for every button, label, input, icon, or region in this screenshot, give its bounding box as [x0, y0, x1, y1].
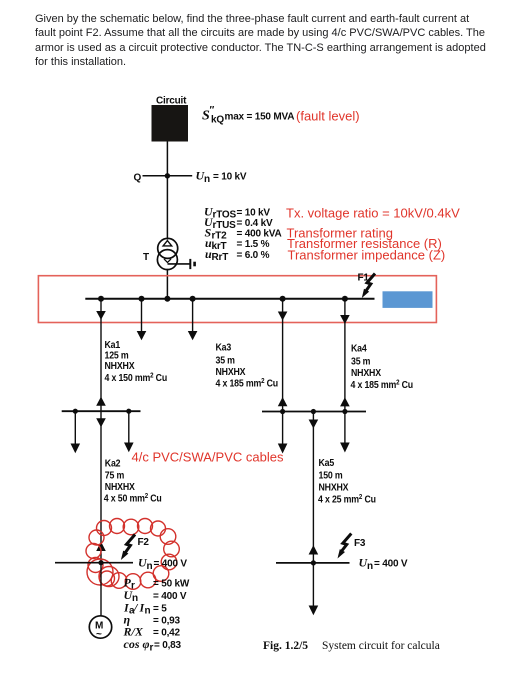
transformer neutral earthing wire: [168, 263, 191, 265]
svg-text:F2: F2: [138, 537, 150, 548]
F3 outgoing wire and arrow: [309, 563, 319, 615]
svg-text:= 0,83: = 0,83: [154, 640, 182, 651]
svg-text:~: ~: [96, 629, 102, 640]
svg-text:= 1.5 %: = 1.5 %: [237, 239, 270, 250]
svg-text:RrT: RrT: [212, 252, 229, 263]
earth symbol: [190, 259, 194, 269]
feeder Ka4 wire with direction arrow: [340, 299, 350, 412]
F3 junction dot: [311, 560, 316, 565]
svg-text:Ka5: Ka5: [319, 456, 335, 468]
spare way 2: wire and arrow: [188, 299, 198, 341]
svg-text:4 x 185 mm2 Cu: 4 x 185 mm2 Cu: [216, 377, 279, 389]
label Q: [134, 173, 142, 184]
svg-text:Q: Q: [134, 173, 142, 184]
svg-text:NHXHX: NHXHX: [351, 366, 382, 378]
feeder Ka5 wire with outgoing arrow: [309, 412, 319, 563]
svg-text:35 m: 35 m: [216, 354, 235, 366]
svg-text:NHXHX: NHXHX: [105, 480, 136, 492]
svg-text:= 0,42: = 0,42: [153, 628, 181, 639]
svg-text:n: n: [147, 561, 153, 572]
svg-text:Transformer impedance (Z): Transformer impedance (Z): [288, 248, 446, 263]
node Q junction dot: [165, 173, 170, 178]
node Q horizontal wire: [143, 175, 193, 177]
svg-text:= 400 kVA: = 400 kVA: [237, 229, 282, 240]
label F1: [358, 273, 370, 284]
problem statement paragraph: [35, 12, 487, 70]
feeder Ka2 arrow into F2 board: [96, 542, 106, 551]
svg-text:150 m: 150 m: [319, 469, 343, 481]
junction dot Ka4: [342, 296, 348, 302]
transformer value label UrTOS = 10 kV: [204, 205, 270, 221]
fault bolt F1: [362, 274, 375, 299]
DB1 outgoing way left: wire and arrow: [71, 411, 81, 453]
network feeder source box: [152, 105, 189, 142]
svg-text:F3: F3: [354, 538, 366, 549]
DB2 junction dot Ka5: [311, 409, 316, 414]
DB2 outgoing way right: wire and arrow: [340, 412, 350, 453]
label Circuit (supply network): [156, 96, 187, 107]
junction dot Ka3: [280, 296, 286, 302]
label block Ka1: [105, 338, 168, 383]
red annotation (fault level): [296, 109, 360, 124]
svg-text:= 400 V: = 400 V: [374, 559, 408, 570]
wire: transformer to main busbar: [166, 269, 168, 299]
label Un = 10 kV: [196, 169, 247, 186]
DB1 junction dot left: [73, 409, 78, 414]
svg-text:= 5: = 5: [153, 604, 167, 615]
DB1 outgoing way right: wire and arrow: [124, 411, 134, 452]
junction dot spare 2: [190, 296, 196, 302]
motor M: [89, 616, 111, 640]
blue highlight rectangle: [383, 291, 433, 308]
motor value label R/X = 0,42: [123, 625, 181, 639]
svg-text:4 x 25 mm2 Cu: 4 x 25 mm2 Cu: [318, 493, 376, 505]
label Un = 400 V at F3: [359, 556, 408, 573]
label T: [143, 252, 149, 263]
label F2: [138, 537, 150, 548]
label block Ka4: [351, 342, 414, 390]
svg-text:= 0,93: = 0,93: [153, 616, 181, 627]
motor value label Pr = 50 kW: [124, 576, 190, 592]
svg-text:rT2: rT2: [212, 231, 228, 242]
wire: F2 board to motor: [100, 563, 102, 616]
svg-text:4 x 50 mm2 Cu: 4 x 50 mm2 Cu: [104, 492, 162, 504]
svg-text:max = 150 MVA: max = 150 MVA: [225, 112, 295, 123]
svg-text:rTOS: rTOS: [213, 210, 237, 221]
main LV busbar: [85, 298, 374, 300]
svg-text:krT: krT: [212, 241, 227, 252]
svg-text:kQ: kQ: [211, 115, 224, 126]
DB1 junction dot right: [126, 409, 131, 414]
junction dot spare 1: [139, 296, 145, 302]
svg-text:cos φ: cos φ: [124, 637, 150, 651]
transformer T primary winding circle with delta symbol: [158, 238, 178, 258]
wire: source box to node Q: [166, 142, 168, 176]
svg-text:4 x 185 mm2 Cu: 4 x 185 mm2 Cu: [351, 378, 414, 390]
svg-text:= 400 V: = 400 V: [154, 559, 188, 570]
feeder Ka1 incoming arrow at DB1: [96, 397, 106, 406]
red highlight rectangle around busbar: [38, 276, 436, 323]
svg-text:n: n: [204, 174, 210, 185]
distribution board DB1 busbar: [62, 410, 141, 412]
svg-text:Ka2: Ka2: [105, 457, 121, 469]
svg-text:rTUS: rTUS: [213, 220, 237, 231]
feeder Ka2 wire with outgoing arrow: [96, 411, 106, 563]
transformer value label ukrT = 1.5 %: [205, 236, 270, 252]
transformer T secondary winding circle with wye symbol: [157, 250, 177, 270]
svg-text:35 m: 35 m: [351, 355, 370, 367]
motor value label cos phi = 0,83: [124, 637, 182, 654]
figure caption: [263, 640, 440, 652]
feeder Ka3 wire with direction arrow: [278, 299, 288, 412]
DB2 junction dot Ka4: [342, 409, 347, 414]
svg-text:75 m: 75 m: [105, 469, 124, 481]
junction dot Ka1: [98, 296, 104, 302]
F2 board busbar: [55, 562, 133, 564]
svg-text:4/c PVC/SWA/PVC cables: 4/c PVC/SWA/PVC cables: [132, 450, 284, 465]
red annotation Transformer resistance: [287, 236, 442, 251]
svg-text:= 6.0 %: = 6.0 %: [237, 250, 270, 261]
label Un = 400 V at F2: [138, 556, 187, 573]
junction dot incomer: [164, 296, 170, 302]
svg-text:(fault level): (fault level): [296, 109, 360, 124]
svg-text:= 0.4 kV: = 0.4 kV: [237, 218, 273, 229]
svg-text:n: n: [367, 561, 373, 572]
F2 junction dot: [98, 560, 103, 565]
feeder Ka4 incoming arrow at DB2: [340, 397, 350, 406]
F3 board busbar: [276, 562, 350, 564]
svg-text:Fig. 1.2/5: Fig. 1.2/5: [263, 640, 308, 652]
feeder Ka3 incoming arrow at DB2: [278, 397, 288, 406]
svg-text:F1: F1: [358, 273, 370, 284]
motor value label Ia / In = 5: [123, 601, 167, 617]
DB2 outgoing way left: wire and arrow: [278, 412, 288, 454]
svg-text:Ka4: Ka4: [351, 342, 367, 354]
red annotation 4/c PVC/SWA/PVC cables: [132, 450, 284, 465]
spare way 1: wire and arrow: [137, 299, 147, 341]
svg-text:Circuit: Circuit: [156, 96, 187, 107]
feeder Ka1 wire with direction arrow: [96, 299, 106, 411]
red hand-drawn loop cloud around fault point F2: [86, 519, 179, 590]
label block Ka3: [216, 341, 279, 389]
distribution board DB2 busbar: [262, 411, 366, 413]
label S''kQ max = 150 MVA: [202, 105, 294, 126]
svg-text:= 10 kV: = 10 kV: [237, 208, 271, 219]
label F3: [354, 538, 366, 549]
svg-text:= 10 kV: = 10 kV: [213, 172, 247, 183]
svg-text:/: /: [133, 601, 139, 615]
DB2 junction dot Ka3: [280, 409, 285, 414]
svg-text:Ka3: Ka3: [216, 341, 232, 353]
transformer value label UrTUS = 0.4 kV: [204, 215, 273, 231]
feeder Ka5 arrow into F3 board: [309, 545, 319, 554]
red annotation Transformer rating: [287, 226, 393, 241]
svg-text:NHXHX: NHXHX: [216, 365, 247, 377]
red annotation Tx. voltage ratio: [286, 206, 460, 221]
motor value label eta = 0,93: [124, 613, 181, 627]
red annotation Transformer impedance: [288, 248, 446, 263]
svg-text:Tx. voltage ratio = 10kV/0.4kV: Tx. voltage ratio = 10kV/0.4kV: [286, 206, 460, 221]
svg-text:NHXHX: NHXHX: [319, 481, 350, 493]
transformer value label uRrT = 6.0 %: [205, 247, 270, 263]
transformer value label SrT2 = 400 kVA: [205, 226, 282, 242]
svg-text:r: r: [150, 643, 154, 654]
svg-text:= 50 kW: = 50 kW: [153, 579, 190, 590]
svg-text:System circuit for calcula: System circuit for calcula: [322, 640, 440, 652]
motor value label Un = 400 V: [124, 588, 187, 604]
svg-text:4 x 150 mm2 Cu: 4 x 150 mm2 Cu: [105, 371, 168, 383]
svg-text:n: n: [145, 606, 151, 617]
fault bolt F3: [338, 534, 352, 559]
label block Ka2: [104, 457, 162, 504]
svg-text:= 400 V: = 400 V: [153, 591, 187, 602]
label block Ka5: [318, 456, 376, 504]
wire: node Q to transformer: [166, 176, 168, 240]
fault bolt F2: [121, 535, 135, 561]
svg-text:T: T: [143, 252, 149, 263]
svg-text:NHXHX: NHXHX: [105, 359, 136, 371]
